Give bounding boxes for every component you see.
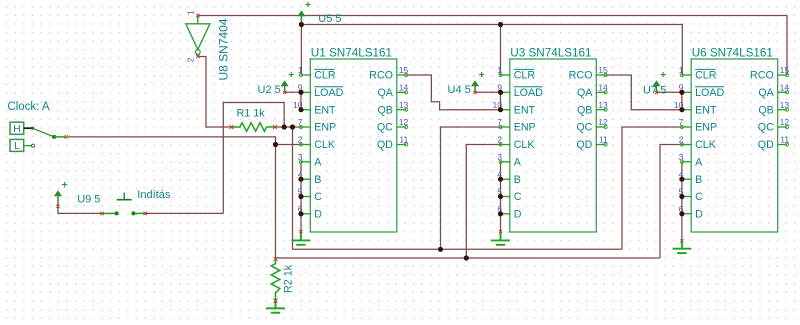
svg-text:12: 12 — [399, 117, 409, 127]
wire: CLK bus riser to CLK U3 pin 2 — [466, 145, 500, 259]
svg-text:QA: QA — [577, 87, 593, 99]
svg-text:U6 SN74LS161: U6 SN74LS161 — [692, 47, 773, 60]
junction D U6 — [679, 211, 684, 216]
svg-text:CLK: CLK — [314, 139, 336, 151]
svg-text:QB: QB — [577, 104, 592, 116]
junction C U3 — [498, 194, 503, 199]
svg-text:15: 15 — [598, 65, 608, 75]
svg-text:CLK: CLK — [695, 139, 717, 151]
wire: +5V drop to CLR U3 pin 1 — [500, 25, 502, 76]
svg-text:14: 14 — [780, 83, 790, 93]
svg-text:QC: QC — [377, 122, 393, 134]
svg-text:ENP: ENP — [695, 122, 717, 134]
svg-text:C: C — [514, 191, 522, 203]
svg-text:ENT: ENT — [695, 104, 717, 116]
wire: ENP bus bottom horizontal — [293, 248, 623, 250]
svg-text:C: C — [314, 191, 322, 203]
svg-text:L: L — [14, 140, 20, 152]
wire: ENP bus riser to ENP U3 pin 7 — [441, 127, 501, 249]
power +5V U5 — [298, 2, 311, 24]
wire: U4 power to LOAD U3 pin 9 — [475, 91, 501, 93]
svg-text:11: 11 — [599, 135, 608, 145]
svg-text:CLR: CLR — [695, 70, 717, 82]
junction ENT U3 — [498, 107, 503, 112]
junction CLK U1 node — [273, 142, 278, 147]
wire: R1 right lead to ENP U1 pin 7 — [275, 126, 301, 128]
svg-text:QB: QB — [377, 104, 392, 116]
svg-text:LOAD: LOAD — [695, 87, 724, 99]
svg-text:RCO: RCO — [569, 70, 593, 82]
wire: U9 power to push button — [58, 206, 102, 213]
svg-text:11: 11 — [780, 135, 789, 145]
svg-text:13: 13 — [598, 100, 608, 110]
power +5V U7 — [653, 72, 666, 94]
wire: LOAD-ENT tie U3 — [500, 92, 502, 109]
wire: ENP bus riser to ENP U6 pin 7 — [622, 127, 682, 249]
svg-text:D: D — [695, 208, 703, 220]
resistor R2 1k — [271, 257, 280, 303]
svg-text:LOAD: LOAD — [514, 87, 543, 99]
svg-text:QA: QA — [377, 87, 393, 99]
junction ENP U1 / button net — [282, 124, 287, 129]
wire: RCO U1 pin 15 to ENT U3 pin 10 (carry cascade) — [406, 75, 500, 110]
wire: U7 power to LOAD U6 pin 9 — [657, 91, 682, 93]
wire: CLK node down to CLK bus — [275, 145, 277, 259]
svg-text:U8 SN7404: U8 SN7404 — [217, 18, 231, 80]
wire: CLK bus riser to CLK U6 pin 2 — [660, 145, 682, 259]
svg-text:D: D — [514, 208, 522, 220]
svg-text:A: A — [314, 156, 322, 168]
svg-text:7: 7 — [497, 117, 502, 127]
svg-text:ENP: ENP — [514, 122, 536, 134]
svg-text:QD: QD — [576, 139, 592, 151]
junction D U3 — [498, 211, 503, 216]
svg-text:7: 7 — [679, 117, 684, 127]
ground under U6 — [673, 239, 692, 253]
ground under U1 — [292, 230, 311, 245]
junction ENT U1 — [298, 107, 303, 112]
junction B U3 — [498, 177, 503, 182]
svg-text:U5 5: U5 5 — [318, 13, 341, 25]
junction B U6 — [679, 177, 684, 182]
wire: +5V drop to CLR U1 pin 1 — [300, 25, 302, 76]
wire: CLK node to CLK U1 pin 2 — [276, 144, 302, 146]
svg-text:3: 3 — [298, 152, 303, 162]
svg-text:CLR: CLR — [514, 70, 536, 82]
junction ENP bus / U3 riser — [438, 247, 443, 252]
power +5V U9 — [55, 182, 68, 208]
svg-text:ENT: ENT — [514, 104, 536, 116]
svg-text:1: 1 — [298, 65, 303, 75]
switch Clock A, H position box — [10, 122, 24, 135]
svg-text:U9 5: U9 5 — [77, 194, 100, 206]
wire: U2 power to LOAD U1 pin 9 — [285, 91, 301, 93]
svg-text:14: 14 — [598, 83, 608, 93]
svg-text:Clock: A: Clock: A — [7, 101, 50, 113]
svg-text:R2 1k: R2 1k — [282, 264, 294, 293]
svg-text:1: 1 — [679, 65, 684, 75]
wire: RCO U3 pin 15 to ENT U6 pin 10 (carry cascade) — [606, 75, 682, 110]
svg-text:H: H — [13, 123, 21, 135]
svg-text:U2 5: U2 5 — [258, 84, 281, 96]
junction LOAD U3 — [498, 90, 503, 95]
svg-text:B: B — [514, 174, 521, 186]
wire: data inputs A-D chain to ground, U6 — [681, 162, 683, 241]
junction ENP U1 / ENP bus — [290, 124, 295, 129]
svg-text:11: 11 — [399, 135, 408, 145]
inverter U8 SN7404 — [186, 10, 210, 63]
wire: +5V net from U5 along top to CLR pins — [301, 25, 682, 76]
svg-text:R1 1k: R1 1k — [237, 107, 266, 119]
wire: data inputs A-D chain to ground, U1 — [300, 162, 302, 231]
wire: data inputs A-D chain to ground, U3 — [500, 162, 502, 231]
svg-text:2: 2 — [186, 57, 196, 62]
svg-text:14: 14 — [399, 83, 409, 93]
junction ENT U6 — [679, 107, 684, 112]
svg-text:RCO: RCO — [750, 70, 774, 82]
svg-text:U3 SN74LS161: U3 SN74LS161 — [510, 47, 591, 60]
junction LOAD U1 — [298, 90, 303, 95]
svg-text:U1 SN74LS161: U1 SN74LS161 — [311, 47, 392, 60]
svg-text:12: 12 — [598, 117, 608, 127]
svg-text:ENT: ENT — [314, 104, 336, 116]
svg-text:12: 12 — [780, 117, 790, 127]
svg-text:QB: QB — [758, 104, 773, 116]
svg-text:13: 13 — [780, 100, 790, 110]
svg-text:A: A — [695, 156, 703, 168]
svg-text:U7 5: U7 5 — [643, 85, 666, 97]
junction B U1 — [298, 177, 303, 182]
svg-text:QA: QA — [758, 87, 774, 99]
svg-text:2: 2 — [497, 135, 502, 145]
svg-text:1: 1 — [186, 10, 196, 15]
svg-text:RCO: RCO — [369, 70, 393, 82]
svg-text:B: B — [314, 174, 321, 186]
op-amp U6 SN74LS161 counter IC — [674, 47, 790, 232]
wire: CLK bus tap down to R2 — [275, 257, 277, 260]
wire: RCO U6 to inverter U8 input (top feedback net) — [198, 16, 787, 76]
svg-text:2: 2 — [298, 135, 303, 145]
junction C U6 — [679, 194, 684, 199]
svg-text:B: B — [695, 174, 702, 186]
op-amp U1 SN74LS161 counter IC — [293, 47, 409, 232]
push button Inditas — [100, 193, 147, 216]
switch Clock A, L position box — [10, 139, 24, 152]
svg-text:7: 7 — [298, 117, 303, 127]
svg-text:CLR: CLR — [314, 70, 336, 82]
svg-text:13: 13 — [399, 100, 409, 110]
svg-text:QD: QD — [377, 139, 393, 151]
svg-text:QD: QD — [758, 139, 774, 151]
wire: inverter U8 output down to R1 — [198, 57, 232, 128]
wire: ENP node down to ENP bus — [292, 127, 294, 249]
svg-text:1: 1 — [497, 65, 502, 75]
junction +5V rail to CLR U3 — [498, 22, 503, 27]
junction C U1 — [298, 194, 303, 199]
svg-text:A: A — [514, 156, 522, 168]
svg-text:U4 5: U4 5 — [448, 84, 471, 96]
wire: LOAD-ENT tie U1 — [300, 92, 302, 109]
switch Clock A lever and contacts — [24, 127, 68, 148]
wire: clock switch to CLK node — [68, 137, 276, 145]
wire: ENP node up and over to push button net — [223, 103, 284, 214]
svg-text:2: 2 — [679, 135, 684, 145]
svg-text:15: 15 — [780, 65, 790, 75]
junction D U1 — [298, 211, 303, 216]
ground under U3 — [491, 230, 510, 245]
svg-text:QC: QC — [576, 122, 592, 134]
svg-text:D: D — [314, 208, 322, 220]
svg-text:ENP: ENP — [314, 122, 336, 134]
wire: LOAD-ENT tie U6 — [681, 92, 683, 109]
power +5V U2 — [281, 72, 294, 94]
op-amp U3 SN74LS161 counter IC — [492, 47, 608, 232]
svg-text:CLK: CLK — [514, 139, 536, 151]
resistor R1 1k — [230, 123, 277, 132]
wire: push button to riser — [145, 212, 223, 214]
svg-text:C: C — [695, 191, 703, 203]
svg-text:15: 15 — [399, 65, 409, 75]
ground under R2 — [266, 299, 285, 312]
wire: CLK bus bottom horizontal — [276, 257, 661, 259]
power +5V U4 — [472, 72, 485, 94]
junction LOAD U6 — [679, 90, 684, 95]
svg-text:3: 3 — [497, 152, 502, 162]
junction U5 power to +5V rail — [299, 22, 304, 27]
svg-text:3: 3 — [679, 152, 684, 162]
svg-text:LOAD: LOAD — [314, 87, 343, 99]
junction CLK bus / U3 riser — [464, 255, 469, 260]
svg-text:QC: QC — [758, 122, 774, 134]
svg-text:Indítás: Indítás — [137, 189, 171, 201]
